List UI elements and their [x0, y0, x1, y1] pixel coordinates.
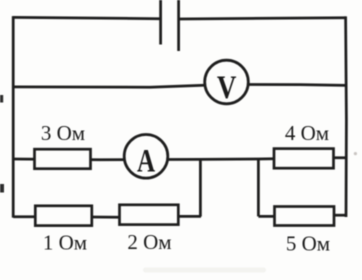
resistor R1 3 Ohm: [35, 149, 91, 169]
wire junction to R5: [258, 215, 275, 218]
svg-text:3 Ом: 3 Ом: [41, 121, 85, 145]
battery GB1 left plate: [159, 0, 162, 45]
svg-text:1 Ом: 1 Ом: [43, 231, 87, 255]
wire top left: [13, 17, 160, 18]
wire right vertical: [344, 16, 348, 217]
resistor R2 4 Ohm: [274, 149, 334, 169]
wire top right: [179, 18, 346, 19]
svg-text:2 Ом: 2 Ом: [127, 230, 171, 254]
wire voltmeter branch: [13, 85, 346, 88]
wire junction vertical right: [257, 159, 260, 216]
resistor R3 1 Ohm: [35, 206, 92, 226]
wire R4 to junction: [178, 215, 201, 218]
resistor R4 2 Ohm: [120, 205, 179, 225]
battery GB1 right plate: [177, 0, 180, 51]
ammeter A1 circle: [124, 135, 168, 179]
resistor R5 5 Ohm: [275, 207, 335, 226]
wire R5 to right vertical: [334, 214, 347, 217]
wire middle row: [14, 158, 347, 160]
wire left vertical: [12, 16, 15, 218]
wire between R3 and R4: [92, 216, 120, 219]
svg-text:V: V: [217, 68, 237, 105]
voltmeter V1 circle: [205, 60, 249, 104]
svg-text:A: A: [137, 143, 155, 179]
svg-text:5 Ом: 5 Ом: [286, 232, 330, 256]
svg-text:4 Ом: 4 Ом: [285, 121, 329, 145]
wire junction vertical left: [199, 159, 202, 216]
wire bottom left row: [13, 215, 35, 218]
